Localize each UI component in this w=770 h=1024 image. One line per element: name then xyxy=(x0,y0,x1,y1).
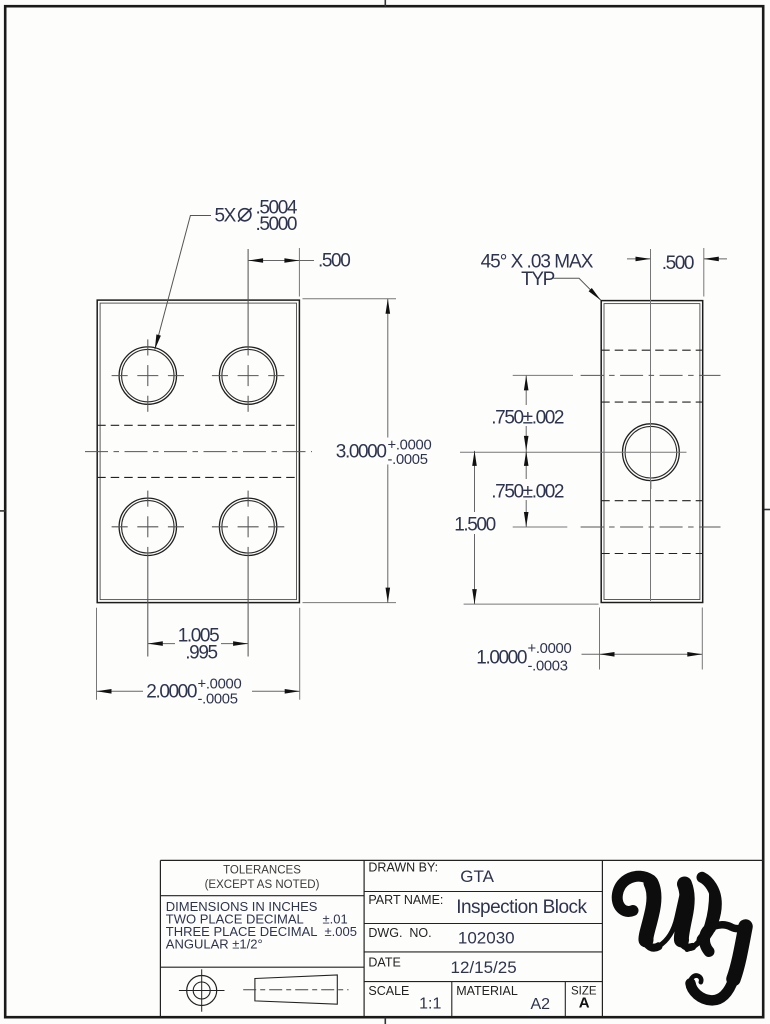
svg-text:2.0000: 2.0000 xyxy=(146,682,197,703)
svg-text:+.0000: +.0000 xyxy=(528,641,572,657)
dim 2.0000: left extension line xyxy=(96,608,98,700)
cone (third angle projection) symbol xyxy=(255,975,337,1004)
svg-text:1:1: 1:1 xyxy=(419,996,441,1013)
hole H4 center mark xyxy=(212,491,284,657)
dim .750 bottom: lower extension segment xyxy=(513,526,568,528)
side hole C5 inner circle xyxy=(625,426,677,478)
side view inner (chamfer) outline xyxy=(604,304,700,600)
leader 5X dia: arrowhead xyxy=(155,334,161,349)
dim 1.500: arrows xyxy=(472,451,477,466)
logo J xyxy=(690,924,747,1000)
dim 2.0000: dimension line right segment xyxy=(252,690,300,692)
svg-text:3.0000: 3.0000 xyxy=(336,442,387,463)
dim 1.005/.995: dimension line right segment xyxy=(221,643,248,645)
hole H4 outer circle xyxy=(219,498,276,555)
dim 1.500: bottom extension line xyxy=(464,603,599,605)
front view horizontal center hole hidden edge (lower dashed) xyxy=(97,476,299,478)
hole H2 outer circle xyxy=(219,347,276,404)
svg-text:.995: .995 xyxy=(185,643,217,664)
data row line 4 xyxy=(364,981,602,983)
hole H2 center mark xyxy=(212,249,284,412)
svg-text:PART NAME:: PART NAME: xyxy=(368,893,443,907)
frame center tick left xyxy=(0,510,6,512)
dim 1.0000: right arrow xyxy=(687,652,702,657)
svg-text:-.0005: -.0005 xyxy=(388,452,428,468)
leader 45 deg arrowhead xyxy=(589,288,601,300)
front view horizontal center hole hidden edge (upper dashed) xyxy=(97,424,299,426)
svg-text:.5000: .5000 xyxy=(256,214,297,235)
svg-text:102030: 102030 xyxy=(458,929,515,948)
leader 5X dia: polyline xyxy=(155,216,211,350)
position target symbol xyxy=(187,976,217,1006)
hole H1 outer circle xyxy=(119,347,176,404)
svg-text:MATERIAL: MATERIAL xyxy=(456,984,518,998)
svg-text:DRAWN BY:: DRAWN BY: xyxy=(368,861,438,875)
dim 2.0000: right arrow xyxy=(285,689,300,694)
tolerances row line 1 xyxy=(160,895,364,897)
dim 1.0000: left arrow xyxy=(600,652,615,657)
dim .500 side: right arrow xyxy=(704,257,719,262)
dim 1.500: dimension line segments xyxy=(474,451,476,512)
side hidden edge hole row2 bottom (dashed) xyxy=(601,553,703,555)
dim .500 side: right arrow tail xyxy=(704,258,727,260)
dim .500 front: right arrow xyxy=(284,258,299,263)
dim 3.0000: top arrow xyxy=(386,299,391,314)
front view inner (chamfer) outline xyxy=(100,303,296,599)
dim 3.0000: top extension line xyxy=(303,298,397,300)
dim 3.0000: dimension line lower segment xyxy=(387,465,389,603)
dim 2.0000: right extension line xyxy=(299,608,301,700)
dim .500 front: tail to text xyxy=(299,260,314,262)
dim 1.005/.995: dimension line left segment xyxy=(148,643,175,645)
dim 3.0000: dimension line upper segment xyxy=(387,299,389,438)
hole H1 center mark xyxy=(112,339,184,411)
dim .750 top: dimension line segments xyxy=(525,375,527,405)
svg-text:DATE: DATE xyxy=(368,956,400,970)
dim .500 front: right edge extension line xyxy=(298,248,300,297)
svg-text:GTA: GTA xyxy=(460,867,494,886)
svg-text:ANGULAR ±1/2°: ANGULAR ±1/2° xyxy=(166,937,263,952)
side horizontal center extension line through hole C5 xyxy=(460,451,687,453)
side view outer outline xyxy=(601,301,703,603)
front view outer outline xyxy=(97,300,299,602)
side hidden edge hole row1 top (dashed) xyxy=(601,349,703,351)
frame center tick top xyxy=(384,0,386,7)
side hole C5 outer circle xyxy=(623,424,680,481)
svg-text:12/15/25: 12/15/25 xyxy=(451,958,517,977)
svg-text:-.0003: -.0003 xyxy=(528,659,568,675)
scale/material divider xyxy=(451,982,453,1017)
side hidden edge hole row2 top (dashed) xyxy=(601,500,703,502)
hole H3 center mark xyxy=(112,491,184,657)
svg-text:+.0000: +.0000 xyxy=(198,677,242,693)
svg-text:(EXCEPT AS NOTED): (EXCEPT AS NOTED) xyxy=(205,879,320,891)
dim .500 front: dimension line xyxy=(248,260,299,262)
tolerances row line 2 xyxy=(160,966,364,968)
svg-text:.500: .500 xyxy=(318,251,350,272)
svg-text:1.500: 1.500 xyxy=(454,515,495,536)
dim 1.005/.995: left arrow xyxy=(148,641,163,646)
side centerline hole row2 (dash-dot) xyxy=(581,526,721,528)
front view center line (dash-dot) xyxy=(85,451,312,453)
dim 3.0000: bottom arrow xyxy=(386,588,391,603)
hole H1 inner circle xyxy=(122,349,174,401)
svg-text:.500: .500 xyxy=(662,253,694,274)
data row line 2 xyxy=(364,923,602,925)
frame center tick bottom xyxy=(384,1018,386,1024)
hole H4 inner circle xyxy=(222,501,274,553)
material/size divider xyxy=(564,982,566,1017)
logo W xyxy=(617,876,716,949)
svg-text:TYP: TYP xyxy=(521,269,554,290)
dim .750 top: upper extension segment xyxy=(513,374,573,376)
svg-text:TOLERANCES: TOLERANCES xyxy=(223,865,301,877)
svg-text:A2: A2 xyxy=(531,996,551,1013)
dim .500 side: left arrow xyxy=(636,257,651,262)
side view vertical centerline xyxy=(650,249,652,601)
frame center tick right xyxy=(765,509,770,511)
svg-text:DWG. NO.: DWG. NO. xyxy=(368,926,431,940)
svg-text:A: A xyxy=(579,995,590,1012)
svg-text:.750±.002: .750±.002 xyxy=(491,482,564,503)
diameter symbol xyxy=(239,209,251,221)
svg-text:±.005: ±.005 xyxy=(325,924,357,939)
title block left edge xyxy=(159,860,161,1016)
dim .750 top: arrows xyxy=(524,375,529,390)
dim 1.0000: right extension line xyxy=(701,608,703,670)
svg-text:SCALE: SCALE xyxy=(368,984,409,998)
dim 3.0000: bottom extension line xyxy=(303,602,397,604)
dim 2.0000: dimension line left segment xyxy=(97,690,144,692)
dim .500 front: left arrow xyxy=(248,258,263,263)
title block outline top xyxy=(160,859,764,861)
dim 1.0000: left extension line xyxy=(599,608,601,670)
hole H2 inner circle xyxy=(222,349,274,401)
dim .750 bottom: arrows xyxy=(524,451,529,466)
dim 1.005/.995: right arrow xyxy=(233,641,248,646)
data row line 1 xyxy=(364,891,602,893)
divider data/logo xyxy=(601,860,603,1016)
side hidden edge hole row1 bottom (dashed) xyxy=(601,401,703,403)
svg-text:1.0000: 1.0000 xyxy=(476,648,527,669)
svg-text:-.0005: -.0005 xyxy=(198,692,238,708)
side hole C5 lower crosshair tick xyxy=(650,480,652,489)
dim 1.0000: dimension line xyxy=(600,653,703,655)
data row line 3 xyxy=(364,951,602,953)
dim .500 side: left arrow tail xyxy=(627,258,651,260)
svg-text:5X: 5X xyxy=(215,206,237,227)
dim 2.0000: left arrow xyxy=(97,689,112,694)
dim 1.0000: tail from text xyxy=(582,653,600,655)
svg-text:Inspection Block: Inspection Block xyxy=(456,897,587,918)
divider tolerances/data xyxy=(363,860,365,1016)
svg-text:.750±.002: .750±.002 xyxy=(491,408,564,429)
dim .750 bottom: dimension line segments xyxy=(525,451,527,479)
hole H3 outer circle xyxy=(119,498,176,555)
side centerline hole row1 (dash-dot) xyxy=(581,374,721,376)
dim .500 side: right extension line xyxy=(703,248,705,297)
hole H3 inner circle xyxy=(122,501,174,553)
leader 45 deg chamfer xyxy=(554,278,601,300)
